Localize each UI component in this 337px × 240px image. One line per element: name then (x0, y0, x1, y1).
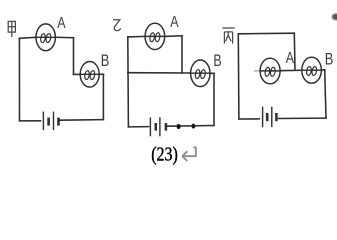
wire: right vertical (circuit 3) (325, 70, 326, 118)
stray ink blob at top-right edge (332, 14, 337, 21)
wire: left vertical (circuit 2) (127, 37, 130, 127)
wire: top branch right to corner (circuit 2) (165, 35, 182, 38)
wire: lamp B to right corner (circuit 1) (99, 73, 103, 75)
wire: top-left corner to lamp A (circuit 1) (19, 37, 36, 38)
wire: right vertical (circuit 2) (213, 73, 215, 125)
svg-text:A: A (57, 15, 66, 33)
wire: left vertical (circuit 1) (18, 38, 20, 121)
battery (circuit 3) (263, 107, 277, 128)
wire: bottom right segment (circuit 2) (168, 125, 215, 128)
wire: vertical from top wire to A-B junction (circuit 3) (293, 33, 296, 70)
wire: lamp B to right corner (circuit 2) (210, 72, 214, 74)
lamp A (circuit 1) (36, 24, 55, 51)
lamp B (circuit 1) (80, 62, 99, 88)
lamp B (circuit 3) (302, 57, 322, 83)
label 甲 (circuit 1) (8, 21, 15, 37)
svg-text:B: B (101, 53, 110, 71)
wire: branch vertical down to middle wire (circuit 2) (181, 36, 183, 73)
paragraph return mark (182, 147, 196, 161)
svg-text:A: A (170, 13, 179, 31)
wire: bottom left segment (circuit 3) (239, 118, 259, 120)
wire: step vertical down (circuit 1) (73, 38, 75, 75)
wire: bottom left segment (circuit 1) (20, 120, 41, 122)
switch contact dot (right) on bottom wire (circuit 2) (192, 124, 196, 129)
lamp A (circuit 2) (145, 23, 165, 49)
svg-text:B: B (213, 52, 221, 70)
wire: bottom left segment (circuit 2) (128, 126, 148, 128)
svg-text:B: B (325, 51, 334, 69)
switch contact dot (left) on bottom wire (circuit 2) (177, 124, 181, 129)
battery (circuit 2) (150, 117, 166, 136)
wire: bottom right segment (circuit 3) (279, 117, 327, 119)
wire: left vertical (circuit 3) (237, 34, 240, 119)
lamp B (circuit 2) (191, 60, 210, 87)
wire: right vertical (circuit 1) (102, 74, 104, 119)
wire: step corner into lamp B (circuit 1) (74, 73, 81, 75)
svg-text:A: A (286, 50, 295, 68)
wire: lamp B to right corner (circuit 3) (321, 69, 324, 71)
svg-text:(23): (23) (151, 143, 178, 166)
label 乙 (circuit 2) (113, 20, 121, 31)
wire: top branch left (circuit 2) (128, 35, 145, 38)
battery (circuit 1) (43, 112, 58, 131)
wire: middle shorting wire (circuit 2) (128, 72, 191, 74)
label 丙 (circuit 3) (222, 28, 234, 44)
lamp A (circuit 3) (260, 58, 280, 84)
wire: lamp A to lamp B (circuit 3) (280, 69, 302, 71)
wire: faint stub left of lamp A (circuit 3) (254, 70, 260, 72)
wire: lamp A to step corner (circuit 1) (55, 36, 73, 38)
wire: top wire (circuit 3) (238, 32, 294, 35)
wire: bottom right segment (circuit 1) (60, 119, 104, 122)
